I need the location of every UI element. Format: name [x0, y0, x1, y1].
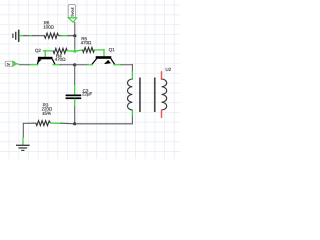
- wire: R3 to node D: [51, 122, 75, 125]
- label R3 220Ω ±5%: [41, 103, 52, 116]
- label C3 22µF: [82, 88, 92, 96]
- resistor R4: [53, 48, 67, 53]
- node C junction dot: [73, 63, 76, 66]
- svg-text:±5%: ±5%: [42, 111, 51, 116]
- wire: Q2 collector to node C (row C): [53, 64, 75, 66]
- svg-text:U2: U2: [165, 67, 171, 72]
- secondary pin bottom (red, unconnected): [161, 110, 163, 117]
- resistor R3: [36, 121, 51, 126]
- node D junction dot: [73, 122, 76, 125]
- label R6 100Ω: [43, 20, 54, 29]
- net label flag 5v (left): [5, 61, 17, 67]
- wire: ground to R6: [20, 35, 45, 37]
- ground (rotated, top-left): [12, 30, 19, 42]
- svg-text:5vout: 5vout: [70, 7, 75, 17]
- svg-text:470Ω: 470Ω: [55, 57, 66, 62]
- primary winding (left): [127, 79, 132, 110]
- transformer U2: [127, 72, 166, 118]
- secondary winding (right): [162, 79, 167, 110]
- wire: flag to node J1: [74, 22, 76, 36]
- label R4 470Ω: [55, 53, 66, 62]
- wire: R5 to Q1 base elbow: [94, 49, 104, 56]
- wire: R6 to node J1: [59, 35, 74, 37]
- wire: R3 left elbow down to ground: [22, 123, 24, 144]
- core: [139, 78, 141, 113]
- node J1 junction dot: [73, 34, 76, 37]
- wire: Q2 base elbow: [43, 50, 53, 57]
- secondary pin top (red, unconnected): [161, 72, 163, 79]
- wire: left elbow to R3: [23, 122, 33, 124]
- wire: node C to Q1 collector: [75, 64, 93, 66]
- wire: node D to transformer primary bottom: [75, 110, 133, 124]
- svg-text:470Ω: 470Ω: [81, 40, 92, 45]
- transistor Q1: [92, 56, 114, 64]
- capacitor C3: [66, 95, 82, 100]
- wire: node C down to capacitor C3: [74, 65, 76, 95]
- resistor R6: [44, 33, 58, 38]
- wire: 5v flag to Q2 emitter: [17, 63, 38, 66]
- wire: J1 down to R4/R5 node: [74, 36, 76, 52]
- wire: C3 bottom to node D: [74, 99, 76, 124]
- transistor Q2: [38, 57, 55, 65]
- svg-text:100Ω: 100Ω: [43, 25, 54, 30]
- svg-text:Q2: Q2: [35, 48, 41, 53]
- wire: R4 to node, node to R5 (row B): [67, 50, 82, 53]
- svg-text:22µF: 22µF: [82, 91, 92, 96]
- resistor R5: [83, 47, 95, 52]
- svg-text:5v: 5v: [7, 62, 11, 66]
- svg-text:Q1: Q1: [109, 47, 115, 52]
- wire: Q1 emitter to transformer primary top: [114, 64, 133, 79]
- net label flag Vout (vertical, top): [68, 5, 77, 23]
- ground (bottom-left): [16, 145, 30, 151]
- label R5 470Ω: [81, 36, 92, 45]
